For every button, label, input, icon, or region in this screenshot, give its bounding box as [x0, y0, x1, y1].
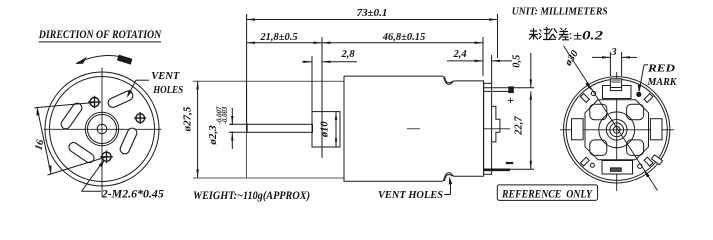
svg-text:VENT HOLES: VENT HOLES	[378, 189, 443, 201]
svg-text:REFERENCE ONLY: REFERENCE ONLY	[501, 188, 593, 200]
unit label	[512, 5, 608, 17]
endcap bearing boss steps	[492, 106, 500, 141]
svg-text:22,7: 22,7	[514, 116, 525, 136]
svg-text:ø10: ø10	[320, 121, 331, 139]
svg-text:WEIGHT:~110g(APPROX): WEIGHT:~110g(APPROX)	[193, 190, 310, 202]
svg-text:2-M2.6*0.45: 2-M2.6*0.45	[101, 189, 164, 201]
svg-text:ø27,5: ø27,5	[182, 106, 194, 132]
svg-text:±0.2: ±0.2	[573, 29, 603, 43]
hub circles	[599, 112, 635, 148]
dim 2,4	[447, 55, 512, 83]
ø30 arrows	[585, 82, 591, 91]
right side rect	[650, 119, 662, 140]
dim 3 (top tab)	[592, 52, 637, 76]
ø30 diagonal dim line	[564, 46, 658, 191]
svg-text:73±0.1: 73±0.1	[357, 7, 388, 19]
center axis line	[407, 128, 420, 130]
svg-text:UNIT: MILLIMETERS: UNIT: MILLIMETERS	[512, 5, 608, 17]
svg-text:-0.007: -0.007	[216, 106, 223, 124]
dim ø10	[335, 112, 337, 147]
ø30 label	[562, 48, 581, 69]
svg-text:2,8: 2,8	[340, 49, 355, 60]
top tab (3mm)	[610, 79, 621, 91]
hub ring circle	[88, 115, 117, 144]
screw hole right	[134, 112, 146, 124]
vent holes label (side view)	[378, 189, 443, 201]
svg-text:DIRECTION OF ROTATION: DIRECTION OF ROTATION	[38, 27, 162, 41]
dim 2,8	[302, 56, 357, 147]
hanzi gong	[549, 28, 557, 39]
svg-text:MARK: MARK	[647, 77, 678, 88]
svg-text:RED: RED	[647, 64, 676, 75]
dim 0,5 (terminal)	[513, 53, 534, 88]
svg-text:HOLES: HOLES	[152, 85, 183, 96]
hole marker bottom-right on ø30	[638, 164, 642, 168]
hanzi wei	[529, 28, 538, 40]
rear inner rim circle	[566, 79, 667, 180]
plate window top-right	[627, 104, 644, 120]
colon	[570, 33, 572, 39]
plate window bottom-left	[590, 140, 607, 156]
motor shaft	[247, 124, 313, 132]
terminal plus	[484, 87, 513, 93]
hole marker bottom-left	[590, 163, 594, 167]
svg-text:+: +	[507, 93, 514, 107]
rotation arc arrow	[75, 55, 132, 65]
dim 21,8±0.5 and 46,8±0.15	[247, 37, 484, 158]
rear endcap	[484, 83, 492, 174]
screw hole M2.6 top-left	[88, 96, 101, 109]
horizontal centerline	[44, 128, 162, 130]
terminal minus	[484, 169, 510, 172]
leader to vent slot	[127, 80, 149, 98]
svg-text:VENT: VENT	[151, 71, 180, 82]
svg-text:ø2,3: ø2,3	[207, 125, 219, 146]
red mark leader	[638, 65, 648, 93]
vent slot bottom-right	[125, 133, 132, 149]
svg-text:46,8±0.15: 46,8±0.15	[382, 32, 426, 43]
top bar	[610, 87, 621, 89]
svg-text:3: 3	[610, 47, 616, 58]
dim 22,7	[510, 91, 534, 169]
vent holes label (left view)	[151, 71, 183, 96]
plate window bottom-right	[627, 140, 644, 156]
dim 16 between screw holes	[35, 103, 107, 176]
vent slot upper-left	[66, 108, 77, 124]
leader 2-M2.6*0.45	[82, 160, 105, 192]
svg-text:0,5: 0,5	[512, 55, 523, 68]
motor inner rim circle	[50, 77, 155, 182]
top connector rect	[603, 86, 632, 99]
svg-text:21,8±0.5: 21,8±0.5	[259, 32, 297, 43]
screw hole M2.6 bottom	[100, 151, 113, 164]
dim ø27,5	[193, 81, 247, 178]
weight label	[193, 190, 310, 202]
vertical centerline	[616, 72, 618, 191]
dim ø2,3 with tolerance	[229, 108, 234, 149]
rim key tab bottom-right	[651, 155, 662, 165]
direction-of-rotation label	[38, 27, 162, 41]
vent notch inner arcs	[445, 175, 453, 181]
brush plate	[585, 100, 649, 160]
shaft hole	[97, 124, 107, 134]
chinese tolerance note 未注公差: ±0.2	[529, 27, 571, 40]
vent slot bottom-left	[74, 147, 90, 158]
front housing	[247, 81, 345, 178]
motor outer circle	[45, 72, 159, 186]
underline	[39, 41, 162, 43]
hanzi cha	[559, 28, 570, 40]
corner tabs	[581, 94, 653, 166]
left side rect	[572, 119, 584, 140]
vertical centerline	[101, 68, 103, 197]
rear outer circle	[564, 77, 670, 183]
plate window top-left	[590, 104, 607, 120]
vent slot top	[113, 96, 128, 103]
bottom connector rect	[602, 161, 633, 175]
svg-text:2,4: 2,4	[452, 49, 466, 60]
bearing boss ø10	[312, 112, 340, 147]
hole marker top-left on ø30	[591, 91, 595, 95]
dim 73±0.1	[247, 14, 498, 124]
red mark label	[647, 64, 678, 89]
red mark dot	[637, 92, 641, 96]
hanzi zhu	[539, 27, 551, 40]
motor can body with vent notches	[344, 76, 484, 181]
horizontal centerline	[560, 129, 674, 131]
reference only box	[497, 185, 597, 201]
hub outer circle	[85, 112, 118, 145]
bottom bar	[611, 168, 622, 171]
